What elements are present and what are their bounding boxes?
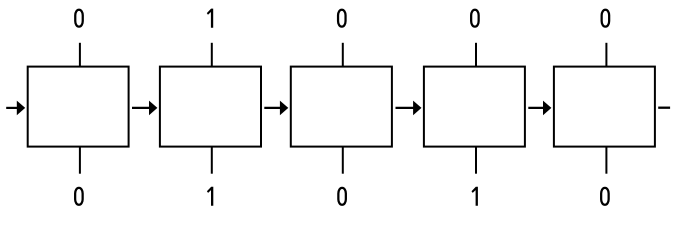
cell box 1 — [28, 67, 129, 147]
value label top 2: 1 — [207, 9, 213, 28]
wire bottom stem 1 — [79, 147, 81, 174]
value label top 1: 0 — [75, 10, 83, 27]
value label bottom 3: 0 — [338, 188, 346, 205]
arrow cell2 to cell3 — [264, 101, 288, 116]
value label top 5: 0 — [602, 10, 610, 27]
wire top stem 1 — [79, 43, 81, 67]
cell box 2 — [160, 67, 261, 147]
value label top 3: 0 — [338, 10, 346, 27]
arrow cell1 to cell2 — [132, 101, 157, 116]
value label bottom 2: 1 — [207, 187, 213, 206]
cell box 4 — [424, 67, 525, 147]
wire top stem 2 — [211, 43, 213, 67]
cell box 3 — [291, 67, 392, 147]
value label bottom 1: 0 — [75, 188, 83, 205]
output line — [658, 107, 670, 109]
wire top stem 5 — [605, 43, 607, 67]
wire top stem 3 — [342, 43, 344, 67]
wire bottom stem 5 — [605, 147, 607, 174]
value label bottom 5: 0 — [601, 188, 609, 205]
wire top stem 4 — [475, 43, 477, 67]
value label bottom 4: 1 — [472, 187, 478, 206]
arrow cell3 to cell4 — [396, 101, 422, 116]
wire bottom stem 3 — [342, 147, 344, 174]
wire bottom stem 4 — [475, 147, 477, 174]
cell box 5 — [554, 67, 655, 147]
value label top 4: 0 — [471, 10, 479, 27]
arrow cell4 to cell5 — [528, 101, 551, 116]
input arrow — [6, 101, 25, 116]
wire bottom stem 2 — [211, 147, 213, 174]
